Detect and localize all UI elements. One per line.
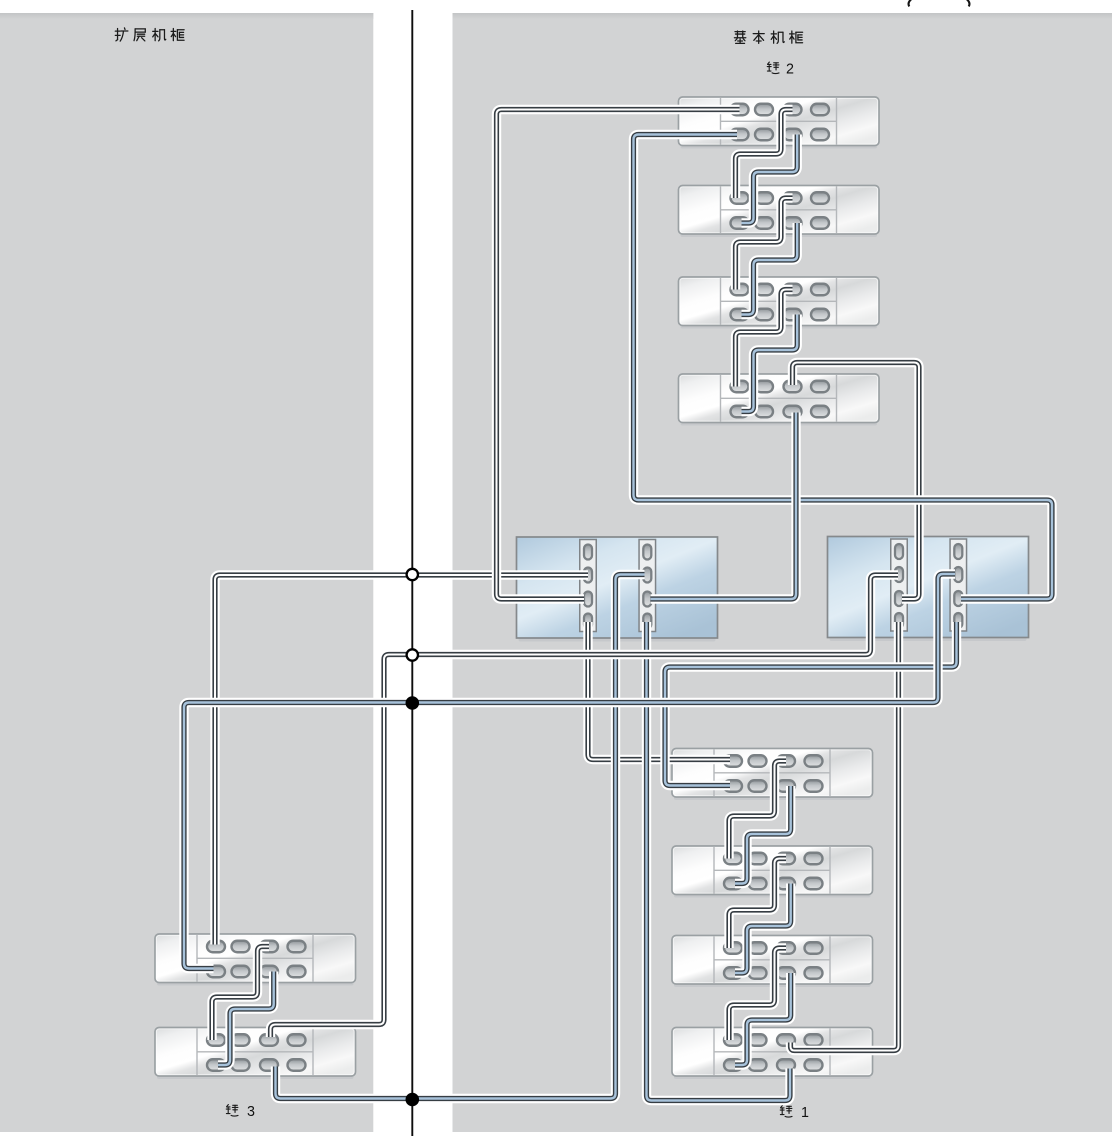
cable: controller2 right-strip port4 down-left to shelf A bottom port1 (665, 622, 957, 786)
label: chain 3 (226, 1105, 238, 1116)
svg-text:2: 2 (786, 62, 794, 78)
controller 2 (828, 537, 1029, 642)
disk shelf S2 (679, 186, 880, 238)
disk shelf S1 (679, 97, 880, 149)
cable: shelf S4 bottom port3 down to controller1 right-strip port3 (651, 413, 797, 600)
cable: shelf S1 bottom port1 around right side to controller2 right-strip port3 (634, 135, 1053, 600)
open circle crossing (no connection) at divider y=655 (407, 649, 418, 660)
base cabinet panel (453, 13, 1112, 1132)
disk shelf S4 (679, 374, 880, 426)
jumper cable (top row) shelf@277 to shelf@374 (736, 290, 793, 387)
disk shelf S3 (679, 277, 880, 329)
cable: shelf S1 top port1 to controller1 left-strip port3 (497, 110, 740, 600)
svg-text:3: 3 (247, 1104, 255, 1120)
jumper cable (bottom row) shelf@846 to shelf@935.5 (735, 884, 791, 974)
cable: shelf S4 top port3 up-right to controller2 left-strip port3 (793, 363, 920, 600)
partial title text ")" glyph bottom (967, 0, 970, 6)
cable: controller2 left-strip port4 down to shelf D top port3 (791, 622, 899, 1051)
disk shelf L1 (155, 934, 356, 986)
disk shelf D (672, 1028, 873, 1080)
filled junction dot at divider y=1099.5 (406, 1093, 420, 1107)
label: chain 2 (767, 62, 779, 73)
disk shelf C (672, 936, 873, 988)
jumper cable (top row) shelf@97 to shelf@185.5 (736, 110, 793, 199)
jumper cable (top row) shelf@846 to shelf@935.5 (729, 859, 786, 949)
jumper cable (bottom row) shelf@748.5 to shelf@846 (735, 786, 791, 884)
jumper cable (bottom row) shelf@185.5 to shelf@277 (742, 223, 798, 315)
jumper cable (top row) shelf@185.5 to shelf@277 (736, 198, 793, 290)
cable: controller1 left-strip port4 down to shelf A top port1 (588, 622, 730, 760)
jumper cable (top row) shelf@934 to shelf@1027.5 (212, 947, 269, 1041)
cable: controller1 left-strip port2 left to shelf L1 top port1 (open circle at divider) (215, 575, 588, 945)
cabinet divider line (411, 10, 413, 1136)
label: chain 1 (780, 1106, 792, 1117)
partial title text "(" glyph bottom (909, 0, 912, 6)
jumper cable (bottom row) shelf@935.5 to shelf@1027.5 (735, 973, 791, 1065)
disk shelf B (672, 846, 873, 898)
expansion cabinet panel (0, 13, 373, 1132)
jumper cable (bottom row) shelf@277 to shelf@374 (742, 315, 798, 412)
label: base cabinet (ji ben ji gui) (734, 31, 745, 43)
cable: controller2 right-strip port2 left to shelf L1 bottom port1 (dot at divider) (184, 574, 955, 969)
jumper cable (bottom row) shelf@934 to shelf@1027.5 (218, 972, 274, 1066)
disk shelf L2 (155, 1028, 356, 1080)
jumper cable (top row) shelf@748.5 to shelf@846 (729, 761, 786, 859)
cable: controller1 right-strip port2 down-left to shelf L2 bottom port3 (dot at divider) (276, 575, 645, 1099)
cable: controller2 left-strip port2 to shelf L2 top port3 (open circle at divider) (271, 575, 899, 1037)
disk shelf A (672, 749, 873, 801)
jumper cable (bottom row) shelf@97 to shelf@185.5 (742, 135, 798, 224)
filled junction dot at divider y=703 (406, 696, 420, 710)
open circle crossing (no connection) at divider y=574.5 (407, 569, 418, 580)
jumper cable (top row) shelf@935.5 to shelf@1027.5 (729, 948, 786, 1040)
controller 1 (517, 537, 718, 642)
cable: controller1 right-strip port4 down to shelf D bottom port3 (647, 622, 791, 1101)
label: expansion cabinet (kuo zhan ji gui) (115, 28, 128, 41)
svg-text:1: 1 (801, 1105, 809, 1121)
